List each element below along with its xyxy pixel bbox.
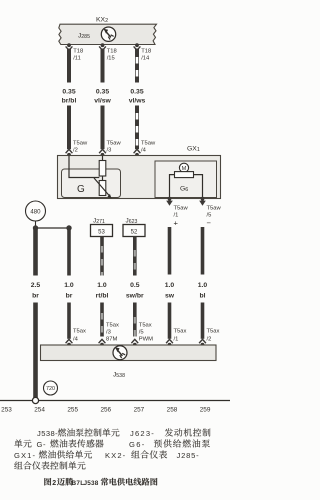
svg-text:2: 2 [52, 480, 56, 487]
wiper arrow of sender G [94, 178, 110, 197]
pump motor M symbol [179, 163, 188, 172]
svg-text:1.0: 1.0 [97, 282, 107, 289]
svg-text:/3: /3 [106, 330, 111, 336]
wire 0.5 sw/br lower segment [133, 303, 137, 337]
pre-supply fuel pump G6 box [155, 161, 217, 198]
connector T18 pin /14 at J285 [135, 43, 139, 47]
svg-text:52: 52 [131, 230, 138, 236]
svg-text:J538: J538 [84, 480, 99, 487]
wire 0.35 vl/ws striped (J285 T18/14 to GX1 T5aw/4) upper segment [135, 49, 139, 83]
gauge symbol in J538 [113, 346, 127, 360]
svg-text:/1: /1 [174, 337, 179, 343]
svg-text:258: 258 [167, 407, 178, 414]
wire 1.0 sw lower segment [168, 303, 172, 339]
svg-text:1.0: 1.0 [64, 282, 74, 289]
connector T5ax pin /1 at J538 [166, 339, 173, 343]
svg-text:259: 259 [200, 407, 211, 414]
gauge symbol in J285 [101, 27, 115, 41]
pump lead left [170, 175, 175, 198]
wire 0.35 vl/sw lower segment [101, 106, 105, 150]
svg-text:256: 256 [100, 407, 111, 414]
junction node B [66, 225, 71, 230]
wire 1.0 bl lower segment [201, 303, 205, 339]
svg-text:0.35: 0.35 [62, 89, 75, 96]
svg-text:T5aw: T5aw [73, 141, 88, 147]
svg-text:255: 255 [67, 407, 78, 414]
connector T5ax pin /5 at J538 [131, 339, 138, 343]
svg-text:/2: /2 [73, 148, 78, 154]
svg-text:rt/bl: rt/bl [96, 293, 109, 300]
svg-text:T5aw: T5aw [107, 141, 122, 147]
svg-text:257: 257 [134, 407, 145, 414]
resistor in G sender [99, 161, 106, 177]
svg-text:J623-: J623- [130, 429, 155, 438]
svg-text:T5aw: T5aw [174, 206, 189, 212]
svg-text:/15: /15 [107, 56, 115, 62]
wire 1.0 sw upper segment (from GX1 T5aw/1) [168, 227, 172, 275]
svg-text:KX2: KX2 [96, 17, 108, 25]
svg-text:/14: /14 [141, 56, 150, 62]
svg-text:T18: T18 [107, 49, 117, 55]
svg-text:254: 254 [34, 407, 45, 414]
connector T18 pin /15 at J285 [101, 43, 105, 47]
relay J271 position box [91, 225, 113, 237]
fuel delivery unit GX1 box [58, 156, 221, 199]
svg-text:J538: J538 [113, 372, 125, 379]
wire 0.35 vl/ws lower segment [135, 106, 139, 150]
svg-text:G6-: G6- [129, 440, 146, 449]
svg-text:/5: /5 [139, 330, 144, 336]
svg-text:87M: 87M [106, 337, 117, 343]
svg-text:PWM: PWM [139, 337, 153, 343]
svg-text:+: + [174, 219, 179, 228]
svg-text:T5ax: T5ax [106, 323, 119, 329]
svg-text:0.5: 0.5 [130, 282, 140, 289]
svg-text:G6: G6 [180, 186, 188, 194]
wire 1.0 rt/bl lower segment [100, 303, 104, 337]
svg-text:−: − [207, 219, 212, 228]
wiring junction designation circle 480 [26, 201, 46, 221]
svg-text:T5ax: T5ax [139, 323, 152, 329]
svg-text:T5ax: T5ax [207, 329, 220, 335]
svg-text:/4: /4 [141, 148, 147, 154]
svg-text:GX1-: GX1- [14, 451, 36, 460]
wire 2.5 br lower segment (to ground rail 254) [33, 303, 38, 400]
junction cross wire [36, 227, 70, 229]
svg-text:sw/br: sw/br [126, 293, 144, 300]
connector T5aw pin /2 at GX1 top [66, 149, 73, 153]
connector T5aw pin /4 at GX1 top [134, 149, 141, 153]
internal wire from T5aw/3 [102, 156, 104, 162]
wire 0.35 br/bl lower segment [67, 106, 71, 150]
svg-text:vl/ws: vl/ws [129, 98, 146, 105]
pump lead right [194, 175, 203, 198]
fuel gauge sender G box [62, 169, 121, 198]
svg-text:/2: /2 [207, 337, 212, 343]
svg-text:GX1: GX1 [187, 146, 200, 154]
internal wire from T5aw/2 to sender wiper [69, 156, 99, 178]
potentiometer element of sender G [99, 181, 106, 196]
ground terminal circle on rail (track 254) [32, 397, 38, 403]
junction node A [33, 225, 38, 230]
svg-text:br: br [32, 293, 39, 300]
svg-text:J271: J271 [93, 218, 105, 225]
svg-text:T5aw: T5aw [207, 206, 222, 212]
connector T18 pin /11 at J285 [67, 43, 71, 47]
connector T5aw pin /1 at GX1 bottom [168, 197, 172, 201]
svg-text:253: 253 [1, 407, 12, 414]
svg-text:0.35: 0.35 [130, 89, 143, 96]
wire 1.0 rt/bl upper segment (from J271) [100, 237, 104, 276]
svg-text:br/bl: br/bl [62, 98, 77, 105]
svg-text:/3: /3 [107, 148, 112, 154]
wire 1.0 bl upper segment (from GX1 T5aw/5) [201, 227, 205, 275]
connector T5aw pin /3 at GX1 top [99, 149, 106, 153]
svg-text:1.0: 1.0 [165, 282, 175, 289]
caption line 2 [14, 439, 22, 447]
svg-text:480: 480 [30, 208, 41, 215]
current track rail [0, 400, 230, 402]
wire 0.35 br/bl (J285 T18/11 to GX1 T5aw/2) upper segment [67, 49, 71, 83]
svg-text:/11: /11 [73, 56, 81, 62]
control unit J285 box (torn edges) [59, 24, 157, 44]
caption figure title [44, 478, 51, 486]
caption line 4 [14, 461, 22, 469]
ground connection designation circle 720 [44, 381, 58, 395]
svg-text:bl: bl [199, 293, 205, 300]
svg-text:br: br [66, 293, 73, 300]
link from 480 to junction node [35, 221, 37, 226]
svg-text:J538-: J538- [37, 429, 58, 438]
J623 position box [123, 225, 145, 237]
svg-text:T5ax: T5ax [174, 329, 187, 335]
svg-text:T5aw: T5aw [141, 141, 156, 147]
svg-text:J285-: J285- [177, 451, 200, 460]
connector T5ax pin /3 at J538 [99, 339, 106, 343]
wire 1.0 br upper segment (junction B down) [67, 228, 71, 276]
svg-text:T18: T18 [141, 49, 151, 55]
wire 0.35 vl/sw (J285 T18/15 to GX1 T5aw/3) upper segment [101, 49, 105, 83]
connector T5ax pin /2 at J538 [199, 339, 206, 343]
wire 1.0 br lower segment [67, 303, 71, 339]
svg-text:/4: /4 [73, 337, 79, 343]
svg-text:2.5: 2.5 [31, 282, 41, 289]
svg-text:vl/sw: vl/sw [94, 98, 111, 105]
svg-text:G-: G- [37, 440, 47, 449]
svg-text:1.0: 1.0 [198, 282, 208, 289]
wire 0.5 sw/br upper segment (from J623) [133, 237, 137, 276]
svg-text:T18: T18 [73, 49, 83, 55]
svg-text:KX2-: KX2- [105, 451, 126, 460]
svg-text:53: 53 [98, 230, 105, 236]
svg-text:G: G [77, 184, 85, 195]
svg-text:J285: J285 [78, 33, 90, 40]
svg-text:720: 720 [46, 386, 55, 392]
wire 2.5 br upper segment (junction A down) [33, 228, 38, 276]
svg-text:sw: sw [165, 293, 175, 300]
svg-text:0.35: 0.35 [96, 89, 109, 96]
fuel pump control unit J538 box [41, 345, 217, 361]
connector T5ax pin /4 at J538 [66, 339, 73, 343]
svg-text:J623: J623 [126, 218, 138, 225]
svg-text:T5ax: T5ax [73, 329, 86, 335]
connector T5aw pin /5 at GX1 bottom [201, 197, 205, 201]
